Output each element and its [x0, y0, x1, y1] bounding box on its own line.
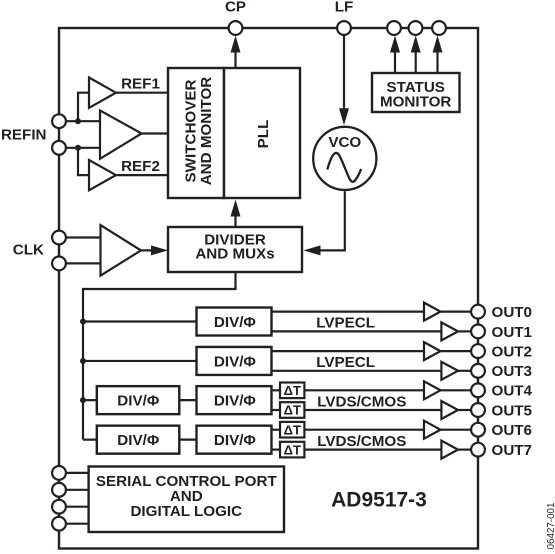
svg-text:REF1: REF1: [121, 76, 160, 93]
svg-text:ΔT: ΔT: [284, 422, 301, 437]
svg-text:DIV/Φ: DIV/Φ: [214, 314, 256, 331]
svg-text:ΔT: ΔT: [284, 403, 301, 418]
svg-text:OUT3: OUT3: [492, 363, 533, 380]
svg-text:LVDS/CMOS: LVDS/CMOS: [317, 393, 406, 410]
svg-text:REFIN: REFIN: [1, 127, 47, 144]
svg-text:MONITOR: MONITOR: [380, 93, 451, 110]
svg-text:OUT4: OUT4: [492, 383, 533, 400]
svg-text:LVPECL: LVPECL: [316, 315, 375, 332]
svg-text:OUT5: OUT5: [492, 402, 533, 419]
svg-text:AD9517-3: AD9517-3: [331, 488, 427, 511]
svg-text:DIV/Φ: DIV/Φ: [214, 353, 256, 370]
svg-text:DIV/Φ: DIV/Φ: [117, 392, 159, 409]
svg-text:ΔT: ΔT: [284, 442, 301, 457]
svg-text:AND MONITOR: AND MONITOR: [198, 77, 215, 186]
svg-text:OUT1: OUT1: [492, 324, 533, 341]
svg-text:OUT6: OUT6: [492, 422, 533, 439]
svg-text:DIV/Φ: DIV/Φ: [214, 432, 256, 449]
svg-text:SWITCHOVER: SWITCHOVER: [182, 80, 199, 183]
svg-text:VCO: VCO: [328, 134, 361, 151]
svg-text:06427-001: 06427-001: [546, 503, 555, 550]
svg-text:DIV/Φ: DIV/Φ: [214, 392, 256, 409]
svg-text:DIV/Φ: DIV/Φ: [117, 432, 159, 449]
svg-text:LF: LF: [335, 0, 354, 16]
svg-text:CP: CP: [225, 0, 246, 16]
svg-text:DIGITAL LOGIC: DIGITAL LOGIC: [130, 503, 242, 520]
svg-text:OUT2: OUT2: [492, 344, 533, 361]
svg-text:REF2: REF2: [121, 158, 160, 175]
svg-text:PLL: PLL: [255, 120, 272, 149]
svg-text:OUT0: OUT0: [492, 304, 533, 321]
svg-text:LVDS/CMOS: LVDS/CMOS: [317, 433, 406, 450]
svg-text:OUT7: OUT7: [492, 442, 533, 459]
svg-text:AND MUXs: AND MUXs: [195, 246, 274, 263]
svg-text:CLK: CLK: [13, 242, 44, 259]
svg-text:ΔT: ΔT: [284, 383, 301, 398]
svg-text:LVPECL: LVPECL: [316, 354, 375, 371]
